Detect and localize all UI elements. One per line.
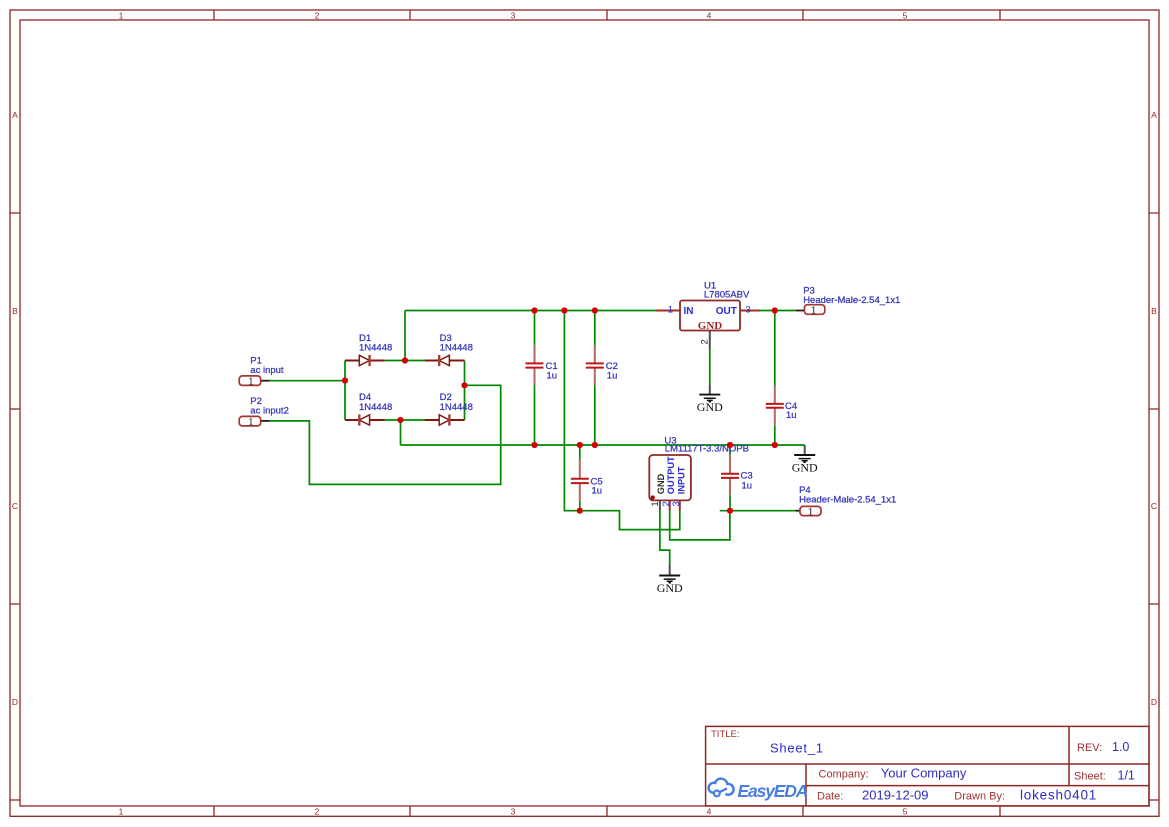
wire rail to U3 INPUT (564, 311, 679, 530)
svg-text:C: C (1151, 501, 1157, 511)
svg-text:1u: 1u (786, 410, 797, 421)
svg-text:1u: 1u (742, 481, 753, 492)
svg-text:1: 1 (808, 507, 813, 518)
svg-text:Drawn By:: Drawn By: (954, 790, 1005, 802)
svg-text:OUTPUT: OUTPUT (666, 456, 676, 494)
wire P2 to bridge right node (270, 385, 501, 484)
ground symbol under U3 (657, 565, 683, 595)
label C1 (546, 361, 558, 382)
svg-text:1u: 1u (607, 371, 618, 382)
label U1 (704, 280, 750, 300)
svg-text:A: A (1151, 110, 1157, 120)
svg-text:2: 2 (315, 807, 320, 817)
junction at bridge right node (461, 382, 467, 388)
svg-text:EasyEDA: EasyEDA (738, 781, 808, 801)
label P2 (250, 396, 289, 417)
junction C1 top rail (531, 307, 537, 313)
label P3 (803, 286, 900, 307)
label D4 (359, 392, 392, 413)
U3 body (649, 455, 691, 500)
label U3 (664, 436, 749, 455)
junction C1 ground rail (531, 442, 537, 448)
wire C2 net upper (594, 311, 596, 346)
label C3 (741, 471, 753, 492)
svg-text:3: 3 (671, 501, 682, 506)
connector P3 (Header-Male-2.54_1x1) (796, 305, 825, 317)
svg-text:1: 1 (650, 501, 661, 506)
label D3 (440, 333, 473, 353)
U3 pin1 marker dot (651, 495, 655, 499)
svg-text:1: 1 (248, 417, 253, 428)
svg-text:GND: GND (698, 320, 723, 332)
svg-text:Your Company: Your Company (881, 765, 967, 780)
wire bridge top middle (385, 360, 425, 362)
svg-text:GND: GND (792, 461, 818, 475)
wire U3 output node to P4 (720, 510, 796, 512)
pin 3 (INPUT) stub (679, 500, 681, 510)
junction at bridge bottom node (397, 417, 403, 423)
label C5 (591, 477, 603, 497)
svg-text:3: 3 (511, 807, 516, 817)
svg-text:1: 1 (668, 304, 673, 315)
junction input feed top rail (561, 307, 567, 313)
diode D1 1N4448 (345, 355, 385, 366)
svg-text:1N4448: 1N4448 (440, 402, 473, 413)
svg-text:2019-12-09: 2019-12-09 (862, 787, 929, 802)
label D2 (440, 392, 473, 413)
svg-text:B: B (12, 306, 18, 316)
capacitor C2 (586, 345, 604, 385)
junction C2 top rail (592, 307, 598, 313)
svg-text:3: 3 (511, 10, 516, 20)
svg-text:1u: 1u (547, 371, 558, 382)
svg-text:B: B (1151, 306, 1157, 316)
svg-text:Sheet:: Sheet: (1074, 771, 1106, 783)
svg-text:REV:: REV: (1077, 742, 1102, 754)
label P1 (250, 356, 284, 377)
label D1 (359, 333, 392, 353)
svg-text:1: 1 (119, 807, 124, 817)
ground symbol under U1 (697, 385, 723, 414)
svg-text:L7805ABV: L7805ABV (704, 290, 750, 301)
op-amp U3 LM1117T-3.3/NOPB regulator (649, 455, 691, 511)
wire top DC rail (405, 310, 656, 312)
svg-text:lokesh0401: lokesh0401 (1020, 787, 1097, 802)
label C4 (785, 401, 797, 421)
ground symbol right of ground rail (792, 445, 818, 475)
svg-text:1: 1 (811, 306, 816, 317)
junction C5 ground rail (577, 442, 583, 448)
connector P2 (ac input2) (239, 416, 270, 428)
junction C4 at U1 OUT (772, 307, 778, 313)
svg-text:GND: GND (657, 581, 683, 595)
svg-text:1N4448: 1N4448 (359, 343, 392, 354)
junction C2 ground rail (592, 442, 598, 448)
wire U3 GND pin to ground symbol (660, 511, 670, 566)
svg-text:1/1: 1/1 (1118, 769, 1135, 783)
svg-text:2: 2 (315, 10, 320, 20)
wire U1 GND pin to ground symbol (709, 349, 711, 385)
svg-text:1: 1 (119, 10, 124, 20)
svg-text:LM1117T-3.3/NOPB: LM1117T-3.3/NOPB (665, 444, 749, 455)
connector P4 (Header-Male-2.54_1x1) (795, 506, 821, 517)
pin 1 (GND) stub (659, 500, 661, 510)
label P4 (799, 485, 896, 506)
junction C3 ground rail (727, 442, 733, 448)
wire C1 net lower (534, 385, 536, 445)
junction C5 at input net (577, 508, 583, 514)
pin 1 (IN) stub (656, 310, 680, 312)
wire U1 OUT to P3 (760, 310, 796, 312)
wire U3 OUTPUT pin to output node (670, 511, 730, 540)
op-amp U1 L7805ABV regulator (656, 301, 760, 350)
wire C1 net upper (534, 311, 536, 346)
svg-text:D: D (1151, 697, 1157, 707)
svg-text:GND: GND (656, 473, 666, 494)
svg-text:4: 4 (707, 10, 712, 20)
svg-text:Sheet_1: Sheet_1 (770, 741, 824, 756)
capacitor C3 (721, 455, 739, 495)
wire ground rail (401, 444, 805, 446)
junction at bridge top node (402, 357, 408, 363)
svg-text:1.0: 1.0 (1112, 740, 1129, 754)
svg-text:Company:: Company: (819, 768, 869, 780)
svg-text:5: 5 (903, 807, 908, 817)
wire C3 net lower (729, 495, 731, 511)
wire C2 net lower (594, 385, 596, 445)
capacitor C1 (526, 345, 544, 385)
capacitor C4 (766, 386, 784, 426)
svg-text:1N4448: 1N4448 (440, 343, 473, 354)
svg-text:Header-Male-2.54_1x1: Header-Male-2.54_1x1 (799, 495, 896, 506)
svg-text:TITLE:: TITLE: (711, 729, 740, 740)
wire C3 net upper (729, 445, 731, 455)
pin 2 (OUTPUT) stub (669, 500, 671, 510)
svg-text:IN: IN (684, 306, 694, 317)
svg-text:1N4448: 1N4448 (359, 402, 392, 413)
svg-text:OUT: OUT (716, 306, 737, 317)
svg-text:4: 4 (707, 807, 712, 817)
svg-text:1u: 1u (592, 486, 603, 497)
capacitor C5 (571, 460, 589, 501)
diode D2 1N4448 (425, 414, 465, 425)
svg-text:5: 5 (903, 10, 908, 20)
connector P1 (ac input) (239, 376, 270, 388)
svg-text:INPUT: INPUT (677, 466, 687, 494)
svg-text:D: D (12, 697, 18, 707)
diode D4 1N4448 (345, 414, 385, 425)
easyeda logo (709, 779, 808, 801)
svg-text:1: 1 (248, 376, 253, 387)
svg-text:Date:: Date: (817, 790, 843, 802)
wire C5 net lower (579, 501, 581, 511)
wire bridge top node to rail (404, 311, 406, 361)
svg-text:Header-Male-2.54_1x1: Header-Male-2.54_1x1 (803, 295, 900, 306)
wire C4 net upper (774, 311, 776, 386)
pin 2 (GND) stub (709, 331, 711, 350)
wire C4 net lower (774, 426, 776, 445)
wire P1 to bridge (270, 380, 345, 382)
svg-text:A: A (12, 110, 18, 120)
junction C4 ground rail (772, 442, 778, 448)
wire bridge right vertical (464, 361, 466, 421)
wire bridge bottom middle (385, 419, 425, 421)
junction at P1/bridge left node (342, 377, 348, 383)
wire bridge bottom node to ground rail (400, 420, 402, 445)
svg-text:GND: GND (697, 400, 723, 414)
junction C3/P4 output node (727, 508, 733, 514)
svg-text:ac input2: ac input2 (250, 406, 289, 417)
svg-text:C: C (12, 501, 18, 511)
U1 body (680, 301, 740, 331)
wire C5 net upper (579, 445, 581, 460)
svg-text:3: 3 (746, 304, 751, 315)
svg-text:2: 2 (700, 339, 711, 344)
wire bridge left vertical (344, 361, 346, 421)
svg-text:ac input: ac input (250, 365, 284, 376)
label C2 (606, 361, 618, 382)
diode D3 1N4448 (425, 355, 465, 366)
pin 3 (OUT) stub (740, 310, 760, 312)
